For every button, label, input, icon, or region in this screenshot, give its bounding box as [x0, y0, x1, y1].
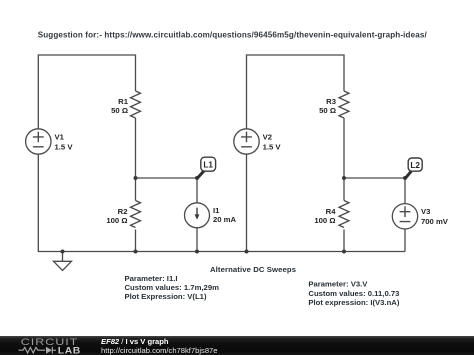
svg-text:R4: R4 — [326, 207, 337, 216]
svg-text:I1: I1 — [213, 206, 220, 215]
svg-text:Plot Expression: V(L1): Plot Expression: V(L1) — [125, 292, 207, 301]
svg-text:LAB: LAB — [58, 346, 81, 355]
svg-text:Parameter: I1.I: Parameter: I1.I — [125, 274, 178, 283]
svg-text:50 Ω: 50 Ω — [319, 106, 336, 115]
svg-text:Custom values: 1.7m,29m: Custom values: 1.7m,29m — [125, 283, 220, 292]
svg-text:100 Ω: 100 Ω — [106, 216, 127, 225]
svg-text:L2: L2 — [410, 161, 420, 170]
svg-text:Plot expression: I(V3.nA): Plot expression: I(V3.nA) — [308, 298, 399, 307]
svg-text:Custom values: 0.11,0.73: Custom values: 0.11,0.73 — [308, 289, 399, 298]
svg-text:L1: L1 — [203, 161, 213, 170]
svg-text:1.5 V: 1.5 V — [55, 143, 74, 152]
svg-text:R3: R3 — [326, 97, 336, 106]
svg-text:R1: R1 — [118, 97, 129, 106]
svg-text:http://circuitlab.com/ch78kf7b: http://circuitlab.com/ch78kf7bjs87e — [101, 346, 218, 355]
svg-text:R2: R2 — [118, 207, 128, 216]
svg-text:Alternative DC Sweeps: Alternative DC Sweeps — [210, 265, 296, 274]
svg-text:V3: V3 — [421, 207, 430, 216]
svg-text:100 Ω: 100 Ω — [314, 216, 335, 225]
svg-text:20 mA: 20 mA — [213, 215, 237, 224]
svg-text:V1: V1 — [55, 133, 65, 142]
svg-text:1.5 V: 1.5 V — [263, 143, 282, 152]
svg-text:Suggestion for:- https://www.c: Suggestion for:- https://www.circuitlab.… — [38, 31, 428, 40]
svg-text:Parameter: V3.V: Parameter: V3.V — [308, 280, 368, 289]
svg-text:V2: V2 — [263, 133, 272, 142]
svg-text:700 mV: 700 mV — [421, 217, 449, 226]
svg-text:50 Ω: 50 Ω — [111, 106, 128, 115]
